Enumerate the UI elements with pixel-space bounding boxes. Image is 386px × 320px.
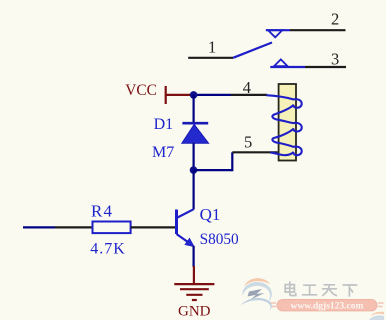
svg-text:3: 3 <box>331 49 339 68</box>
svg-text:5: 5 <box>244 132 252 151</box>
relay armature wiper <box>233 43 272 58</box>
VCC power port bar <box>165 86 167 104</box>
transistor Q1 emitter arrow <box>185 239 194 247</box>
svg-text:VCC: VCC <box>125 82 157 99</box>
relay contact pin 3 lead <box>270 66 305 68</box>
ground bar 4 <box>192 299 197 301</box>
pin 5 lead <box>232 151 277 153</box>
watermark url pill <box>271 300 384 312</box>
junction node A <box>190 91 198 99</box>
relay contact pin 1 wire <box>188 57 233 59</box>
ground bar 1 <box>174 283 214 285</box>
relay contact pin 2 lead <box>266 29 290 31</box>
ground bar 2 <box>180 288 209 290</box>
svg-text:R4: R4 <box>91 201 113 220</box>
relay coil core K1 <box>279 84 296 161</box>
contact arrow pin 2 <box>268 30 282 37</box>
wire node B to transistor collector <box>193 170 195 209</box>
svg-text:4.7K: 4.7K <box>90 240 126 257</box>
transistor Q1 emitter stroke <box>177 234 194 246</box>
watermark corner mark <box>369 312 384 320</box>
diode D1 cathode bar <box>182 122 208 125</box>
contact arrow pin 3 <box>274 59 288 66</box>
svg-text:GND: GND <box>178 304 211 320</box>
svg-text:1: 1 <box>208 38 216 57</box>
svg-text:S8050: S8050 <box>200 231 239 248</box>
watermark logo <box>241 278 272 311</box>
wire riser to pin 5 <box>231 152 233 171</box>
wire diode anode to node B <box>193 143 195 170</box>
wire node B to coil pin 5 (horizontal) <box>194 169 233 171</box>
ground stem <box>193 266 195 283</box>
relay coil winding <box>266 95 301 155</box>
svg-text:2: 2 <box>331 10 339 29</box>
svg-text:Q1: Q1 <box>200 205 221 224</box>
wire emitter to ground <box>193 246 195 267</box>
junction node B <box>190 166 198 174</box>
svg-text:www.dgjs123.com: www.dgjs123.com <box>291 302 364 312</box>
resistor R4 right lead / base wire <box>131 226 176 228</box>
wire resistor input <box>23 226 55 228</box>
pin 4 lead <box>231 94 267 96</box>
wire node A to pin 4 <box>194 94 231 96</box>
resistor R4 body <box>93 222 131 234</box>
watermark text "dian gong tian xia" drawn strokes <box>285 282 356 296</box>
resistor R4 left lead <box>55 226 93 228</box>
wire node A to diode cathode <box>193 95 195 122</box>
diode D1 body <box>182 124 209 143</box>
transistor Q1 collector stroke <box>177 209 194 218</box>
transistor Q1 base bar <box>175 210 178 235</box>
svg-text:4: 4 <box>243 78 251 97</box>
VCC power port stem <box>166 94 190 96</box>
ground bar 3 <box>186 294 202 296</box>
svg-text:D1: D1 <box>154 116 174 133</box>
svg-text:M7: M7 <box>152 144 174 161</box>
